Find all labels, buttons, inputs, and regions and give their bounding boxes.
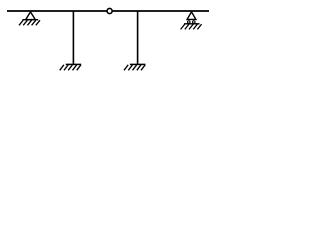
roller 2 under support B: [193, 21, 196, 24]
ground hatching under support A: [19, 20, 40, 25]
ground line at base of column member 1: [66, 63, 82, 65]
support B: roller support triangle (right): [187, 12, 196, 20]
ground hatching at base of column member 1: [60, 65, 81, 71]
wire: beam (horizontal top chord): [7, 10, 209, 12]
ground line under support B: [184, 23, 200, 25]
ground hatching under support B: [181, 24, 202, 29]
ground line at base of column member 2: [130, 63, 146, 65]
roller 1 under support B: [188, 21, 191, 24]
wire: column member 2 (right vertical): [137, 11, 139, 64]
support A: pin support triangle (left): [26, 12, 36, 20]
ground line under support A: [22, 19, 38, 21]
wire: column member 1 (left vertical): [72, 11, 74, 64]
ground hatching at base of column member 2: [124, 65, 145, 71]
node: internal hinge (white circle on beam): [107, 8, 112, 13]
